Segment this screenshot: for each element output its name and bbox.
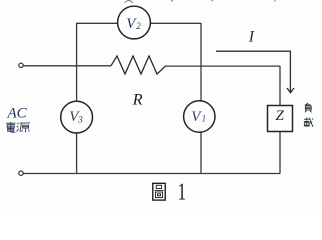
svg-text:R: R: [132, 91, 143, 108]
svg-text:Z: Z: [276, 108, 285, 124]
svg-text:1: 1: [202, 114, 207, 124]
svg-text:AC: AC: [7, 106, 28, 122]
svg-text:I: I: [248, 29, 255, 46]
svg-text:1: 1: [178, 180, 186, 205]
svg-text:2: 2: [136, 21, 141, 31]
svg-text:3: 3: [77, 114, 83, 124]
